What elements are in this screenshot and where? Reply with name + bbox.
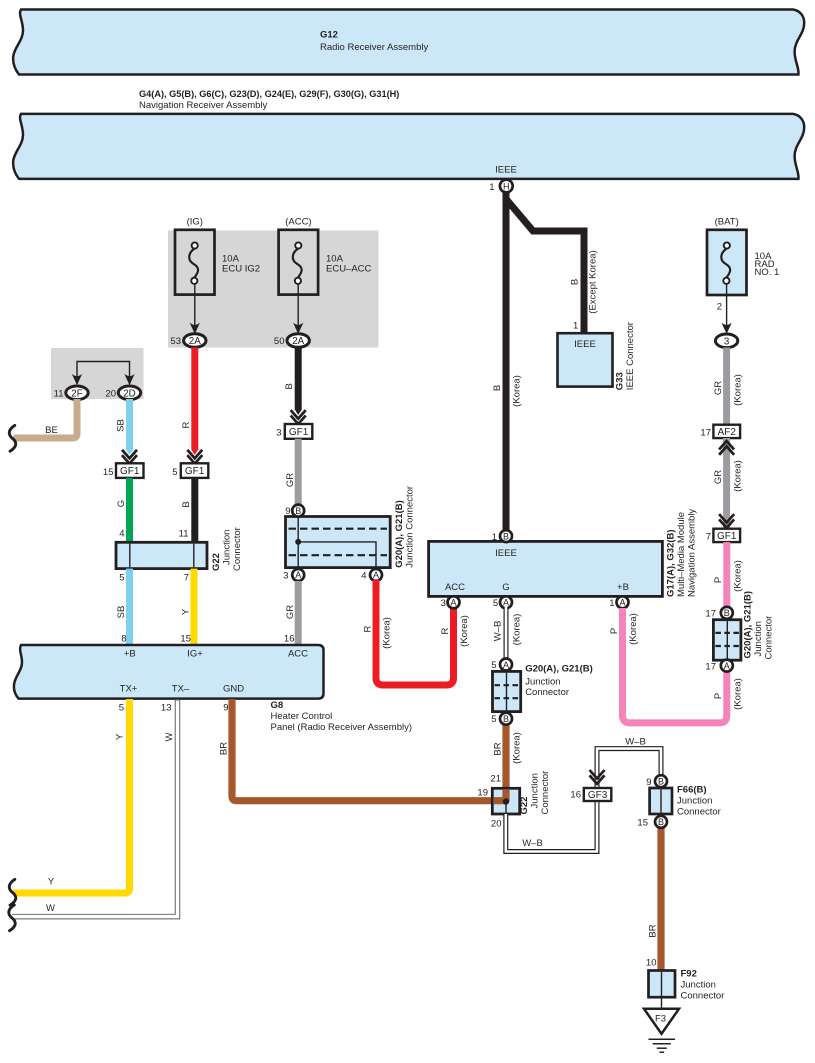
svg-text:(IG): (IG) (187, 217, 203, 228)
svg-text:G: G (502, 582, 509, 593)
svg-text:(Korea): (Korea) (512, 614, 523, 646)
svg-text:Multi–Media Module: Multi–Media Module (676, 512, 687, 597)
svg-text:B: B (181, 501, 192, 507)
wire BE beige from 2F (14, 399, 78, 438)
svg-text:G20(A), G21(B): G20(A), G21(B) (743, 591, 754, 659)
svg-text:2D: 2D (123, 388, 136, 399)
svg-text:GND: GND (223, 684, 244, 695)
svg-text:BR: BR (219, 742, 230, 755)
svg-text:GF1: GF1 (717, 531, 737, 542)
svg-text:R: R (181, 421, 192, 428)
svg-text:20: 20 (105, 388, 116, 399)
svg-text:2A: 2A (189, 336, 201, 347)
svg-text:+B: +B (124, 649, 136, 660)
svg-text:P: P (713, 577, 724, 583)
svg-text:A: A (373, 570, 379, 580)
svg-text:7: 7 (184, 573, 189, 584)
svg-text:ECU IG2: ECU IG2 (222, 264, 260, 275)
svg-text:Radio Receiver Assembly: Radio Receiver Assembly (320, 42, 428, 53)
svg-text:G: G (116, 500, 127, 507)
svg-text:GF3: GF3 (588, 790, 608, 801)
wire W white TX- (12, 699, 178, 917)
svg-text:P: P (713, 693, 724, 699)
svg-text:AF2: AF2 (718, 427, 737, 438)
svg-text:(Korea): (Korea) (628, 613, 639, 645)
wire break symbol BE (9, 425, 16, 451)
svg-text:Navigation Assembly: Navigation Assembly (687, 509, 698, 597)
wire B black (Except Korea) branch to G33 (507, 200, 585, 335)
wire GR gray (Korea) AF2 to GF1 (723, 438, 730, 529)
svg-text:GF1: GF1 (185, 466, 205, 477)
svg-text:(Korea): (Korea) (733, 374, 744, 406)
wire W-B G22 pin 20 to GF3 (506, 801, 597, 852)
wire B black GF1 to G22 pin 11 (191, 478, 198, 543)
svg-text:GR: GR (713, 381, 724, 395)
svg-text:5: 5 (493, 598, 498, 609)
svg-text:ECU–ACC: ECU–ACC (326, 264, 372, 275)
svg-text:G20(A), G21(B): G20(A), G21(B) (525, 664, 593, 675)
svg-text:B: B (658, 777, 664, 787)
svg-text:TX–: TX– (172, 684, 190, 695)
svg-text:IEEE Connector: IEEE Connector (625, 322, 636, 390)
svg-text:P: P (609, 628, 620, 634)
svg-text:Junction: Junction (681, 980, 716, 991)
wire B black (Korea) IEEE (503, 189, 510, 533)
svg-text:2F: 2F (71, 388, 82, 399)
svg-text:B: B (295, 506, 301, 516)
svg-text:15: 15 (103, 467, 114, 478)
svg-text:A: A (619, 598, 625, 608)
svg-text:GR: GR (285, 605, 296, 619)
svg-text:Panel (Radio Receiver Assembly: Panel (Radio Receiver Assembly) (271, 722, 413, 733)
wire GR gray G20/G21 3(A) to G8 ACC pin 16 (295, 581, 302, 646)
svg-text:Y: Y (48, 877, 55, 888)
svg-text:BR: BR (648, 924, 659, 937)
svg-text:IEEE: IEEE (574, 339, 596, 350)
svg-text:G22: G22 (519, 797, 530, 815)
wire BR brown (Korea) to G22 pin 21 (502, 723, 509, 799)
svg-text:3: 3 (724, 336, 730, 347)
svg-text:(Except Korea): (Except Korea) (588, 250, 599, 313)
svg-text:(Korea): (Korea) (512, 375, 523, 407)
svg-text:3: 3 (441, 598, 446, 609)
svg-text:A: A (724, 661, 730, 671)
wire Y yellow TX+ (13, 699, 130, 893)
svg-text:17: 17 (705, 609, 716, 620)
svg-text:B: B (503, 531, 509, 541)
wire GR gray GF1 to G20/G21 pin 9(B) (295, 439, 302, 506)
internal branch to pin 4(A) (298, 542, 376, 567)
svg-text:2: 2 (717, 302, 722, 313)
wire G green GF1 to G22 pin 4 (126, 478, 133, 543)
svg-text:16: 16 (284, 634, 295, 645)
wires into G22 junction dot (502, 790, 509, 802)
svg-text:F92: F92 (681, 969, 697, 980)
svg-text:Connector: Connector (540, 771, 551, 815)
svg-text:19: 19 (477, 788, 488, 799)
svg-text:2A: 2A (292, 336, 304, 347)
svg-text:Junction: Junction (530, 773, 541, 808)
svg-text:5: 5 (491, 714, 496, 725)
wire B black from 2A to GF1 (295, 348, 302, 410)
junction connector G22 (lower) (492, 788, 519, 814)
wire BR brown GND to G22 pin 19 (232, 699, 497, 801)
svg-text:R: R (440, 627, 451, 634)
svg-text:5: 5 (172, 467, 177, 478)
svg-text:Connector: Connector (677, 807, 721, 818)
svg-text:11: 11 (179, 529, 189, 540)
svg-text:+B: +B (617, 582, 629, 593)
radio receiver assembly band G12 (13, 10, 804, 75)
svg-text:TX+: TX+ (120, 684, 138, 695)
svg-text:(Korea): (Korea) (512, 732, 523, 764)
svg-text:17: 17 (700, 427, 711, 438)
svg-text:A: A (503, 598, 509, 608)
svg-text:9: 9 (223, 703, 228, 714)
svg-text:SB: SB (116, 419, 127, 432)
svg-text:53: 53 (170, 336, 181, 347)
small junction block (gray) top-left (51, 348, 144, 399)
svg-text:A: A (503, 660, 509, 670)
svg-text:G22: G22 (211, 553, 222, 571)
svg-text:Connector: Connector (525, 687, 569, 698)
wire W-B GF3 to F66 9(B) (597, 749, 661, 787)
svg-text:3: 3 (283, 571, 288, 582)
svg-text:BR: BR (493, 742, 504, 755)
navigation receiver assembly band (13, 114, 804, 179)
svg-text:5: 5 (491, 660, 496, 671)
wire SB sky blue from 2D to GF1 (126, 399, 133, 450)
svg-text:17: 17 (705, 661, 716, 672)
svg-text:A: A (450, 598, 456, 608)
svg-text:(Korea): (Korea) (733, 460, 744, 492)
svg-text:F3: F3 (655, 1014, 666, 1025)
svg-text:GR: GR (285, 473, 296, 487)
svg-text:GF1: GF1 (120, 466, 140, 477)
svg-text:IG+: IG+ (187, 649, 203, 660)
fuse block (gray) (168, 231, 379, 348)
svg-text:SB: SB (116, 606, 127, 619)
svg-text:1: 1 (609, 598, 614, 609)
svg-text:R: R (363, 625, 374, 632)
svg-text:(Korea): (Korea) (733, 560, 744, 592)
svg-text:G12: G12 (320, 30, 338, 41)
wire break symbol W (9, 905, 16, 931)
svg-text:16: 16 (570, 790, 581, 801)
svg-text:G8: G8 (271, 700, 284, 711)
svg-text:B: B (503, 714, 509, 724)
svg-text:1: 1 (492, 532, 497, 543)
svg-text:G17(A), G32(B): G17(A), G32(B) (666, 529, 677, 597)
svg-text:W–B: W–B (522, 838, 543, 849)
svg-text:11: 11 (54, 388, 64, 399)
svg-text:H: H (503, 181, 510, 191)
svg-text:Connector: Connector (764, 616, 775, 660)
wire R red from 2A to GF1 (191, 348, 198, 450)
wire fuse ACC to connector 2A (297, 283, 299, 328)
svg-text:B: B (570, 279, 581, 285)
svg-text:Connector: Connector (681, 991, 725, 1002)
svg-text:ACC: ACC (288, 649, 308, 660)
svg-text:20: 20 (491, 819, 502, 830)
svg-text:5: 5 (119, 573, 124, 584)
svg-text:B: B (658, 817, 664, 827)
svg-text:15: 15 (180, 634, 191, 645)
svg-text:GF1: GF1 (289, 427, 309, 438)
connector pin 3 oval (715, 334, 737, 348)
svg-text:Junction: Junction (525, 677, 560, 688)
svg-text:9: 9 (646, 777, 651, 788)
svg-text:ACC: ACC (445, 582, 465, 593)
heater control panel G8 (14, 645, 324, 699)
wire BR brown F66 15(B) to F92 (657, 824, 664, 971)
svg-text:A: A (295, 570, 301, 580)
svg-text:7: 7 (706, 531, 711, 542)
wire P pink (Korea) GF1 to G20/G21 17(B) (723, 542, 730, 609)
svg-text:G4(A), G5(B), G6(C), G23(D), G: G4(A), G5(B), G6(C), G23(D), G24(E), G29… (139, 89, 399, 99)
svg-text:3: 3 (276, 427, 281, 438)
svg-text:Y: Y (115, 733, 126, 740)
svg-text:(ACC): (ACC) (285, 217, 311, 228)
junction GF3 pin 16 (590, 770, 605, 779)
junction connector G22 (left) (116, 542, 207, 568)
svg-text:5: 5 (119, 703, 124, 714)
svg-text:21: 21 (490, 774, 501, 785)
ground F3 (661, 997, 663, 1009)
svg-text:4: 4 (361, 571, 366, 582)
svg-text:Heater Control: Heater Control (271, 711, 333, 722)
wire GR gray (Korea) connector 3 to AF2 (723, 348, 730, 427)
junction connector F92 (649, 971, 676, 998)
svg-text:(Korea): (Korea) (382, 617, 393, 649)
svg-text:(BAT): (BAT) (715, 217, 739, 228)
svg-text:9: 9 (285, 506, 290, 517)
svg-text:Junction: Junction (753, 621, 764, 656)
wire W-B (Korea) G17 G to G20/G21 5(A) (504, 607, 509, 658)
svg-text:W–B: W–B (625, 736, 646, 747)
bracket wire joining 2F and 2D (77, 362, 130, 385)
multi-media module G17(A), G32(B) (429, 541, 663, 596)
svg-text:Navigation Receiver Assembly: Navigation Receiver Assembly (139, 100, 268, 111)
svg-text:10: 10 (646, 958, 657, 969)
svg-text:IEEE: IEEE (495, 164, 517, 175)
svg-text:F66(B): F66(B) (677, 785, 707, 796)
svg-text:W: W (164, 732, 175, 741)
svg-text:Y: Y (181, 608, 192, 615)
svg-text:NO. 1: NO. 1 (755, 267, 780, 278)
svg-text:W: W (46, 903, 55, 914)
wire R red (Korea) G20/G21 4(A) to G17 ACC (376, 580, 454, 685)
svg-text:B: B (492, 385, 503, 391)
svg-text:GR: GR (713, 470, 724, 484)
svg-text:B: B (724, 608, 730, 618)
svg-text:G33: G33 (615, 372, 626, 390)
svg-text:50: 50 (274, 336, 285, 347)
svg-text:13: 13 (161, 703, 172, 714)
svg-text:Junction: Junction (677, 796, 712, 807)
svg-text:Connector: Connector (232, 527, 243, 571)
svg-text:(Korea): (Korea) (733, 678, 744, 710)
junction connector G20(A), G21(B) (286, 517, 391, 568)
svg-text:Junction Connector: Junction Connector (405, 486, 416, 568)
svg-text:15: 15 (637, 818, 648, 829)
svg-text:W–B: W–B (493, 621, 504, 642)
wire fuse IG to connector 2A (194, 283, 196, 328)
svg-text:G20(A), G21(B): G20(A), G21(B) (394, 500, 405, 568)
svg-text:B: B (284, 383, 295, 389)
svg-text:4: 4 (119, 529, 124, 540)
svg-text:Junction: Junction (222, 530, 233, 565)
svg-text:1: 1 (573, 321, 578, 332)
wire P pink (Korea) 17(A) to G17 +B (623, 608, 727, 723)
svg-text:8: 8 (121, 634, 126, 645)
svg-text:(Korea): (Korea) (459, 615, 470, 647)
svg-text:BE: BE (45, 425, 58, 436)
wire break symbol Y (9, 879, 16, 905)
svg-text:IEEE: IEEE (495, 548, 517, 559)
svg-text:1: 1 (489, 182, 494, 193)
